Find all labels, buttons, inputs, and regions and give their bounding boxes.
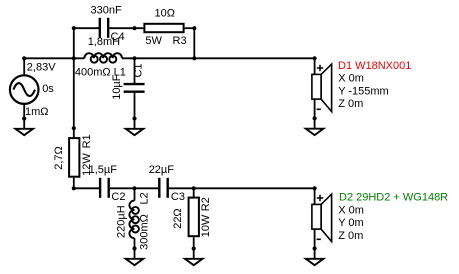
svg-text:L2: L2 xyxy=(138,192,150,204)
ground under R2 xyxy=(185,246,203,265)
ground under D2 xyxy=(306,246,324,265)
node dot at L2 tap xyxy=(132,186,136,190)
minus sign D2 xyxy=(317,238,321,240)
ground under D1 xyxy=(306,116,324,135)
svg-text:R1: R1 xyxy=(81,134,93,148)
wire D1 bottom xyxy=(314,99,316,118)
node dot below R1 xyxy=(72,186,76,190)
wire D1 top xyxy=(314,58,316,74)
svg-text:300mΩ: 300mΩ xyxy=(138,214,150,250)
wire C1 bottom xyxy=(134,93,136,119)
wire C4 to R3 xyxy=(110,27,144,29)
speaker D1 xyxy=(312,64,332,112)
svg-text:10Ω: 10Ω xyxy=(155,8,175,20)
svg-text:10µF: 10µF xyxy=(111,74,123,100)
wire C3 to speaker D2 xyxy=(169,187,315,189)
node dot top-left corner xyxy=(72,26,76,30)
svg-text:1,5µF: 1,5µF xyxy=(89,164,118,176)
ground under C1 xyxy=(126,116,144,135)
svg-text:5W: 5W xyxy=(145,35,162,47)
ground under L2 xyxy=(126,246,144,265)
capacitor C2 xyxy=(100,178,109,198)
speaker D2 xyxy=(312,194,332,242)
wire C2 to C3 xyxy=(110,187,158,189)
plus sign D2 xyxy=(317,195,323,201)
resistor R3 xyxy=(144,24,183,32)
svg-text:C3: C3 xyxy=(171,191,185,203)
svg-text:R2: R2 xyxy=(200,197,212,211)
svg-text:2,7Ω: 2,7Ω xyxy=(53,146,65,170)
wire R3 drop to node A rail xyxy=(193,28,195,58)
svg-text:330nF: 330nF xyxy=(91,5,122,17)
svg-text:1mΩ: 1mΩ xyxy=(25,106,49,118)
node dot between C4 and R3 xyxy=(132,26,136,30)
svg-text:220µH: 220µH xyxy=(115,205,127,238)
resistor R2 xyxy=(189,198,199,237)
wire top rail to C4 xyxy=(74,27,99,29)
capacitor C4 xyxy=(100,18,108,38)
voltage source V1 xyxy=(10,75,39,104)
svg-text:X 0m: X 0m xyxy=(338,73,364,85)
wire lower rail left xyxy=(74,187,99,189)
wire node A down to R1 xyxy=(73,58,75,137)
node dot after L1 xyxy=(132,56,136,60)
wire top rail left vertical xyxy=(73,28,75,58)
svg-text:X 0m: X 0m xyxy=(338,204,364,216)
wire R2 bottom xyxy=(193,237,195,248)
wire L2 top xyxy=(134,188,136,200)
capacitor C1 xyxy=(124,84,145,92)
svg-text:C1: C1 xyxy=(132,63,144,77)
node dot above R1 xyxy=(72,126,76,130)
node dot at D2 xyxy=(313,186,317,190)
svg-text:0s: 0s xyxy=(42,83,54,95)
minus sign D1 xyxy=(317,108,321,110)
plus sign D1 xyxy=(317,65,323,71)
capacitor C3 xyxy=(159,178,167,198)
svg-text:2,83V: 2,83V xyxy=(27,61,56,73)
wire source bottom xyxy=(23,104,25,119)
wire C1 branch top xyxy=(134,58,136,83)
svg-text:C2: C2 xyxy=(111,191,125,203)
ground under source xyxy=(15,116,33,135)
svg-text:Y 0m: Y 0m xyxy=(338,217,363,229)
wire node A rail left xyxy=(24,57,84,59)
resistor R1 xyxy=(69,138,79,177)
svg-text:D1 W18NX001: D1 W18NX001 xyxy=(338,60,411,72)
wire D2 top xyxy=(314,188,316,204)
wire node A rail right of L1 to speaker D1 xyxy=(122,57,315,59)
svg-text:R3: R3 xyxy=(173,35,187,47)
svg-text:D2 29HD2 + WG148R: D2 29HD2 + WG148R xyxy=(339,192,448,204)
inductor L1 xyxy=(84,53,122,63)
svg-text:Z 0m: Z 0m xyxy=(338,98,363,110)
wire R2 top xyxy=(193,188,195,197)
wire R1 bottom xyxy=(73,178,75,189)
wire D2 bottom xyxy=(314,229,316,248)
svg-text:Y -155mm: Y -155mm xyxy=(338,85,389,97)
svg-text:22Ω: 22Ω xyxy=(172,208,184,228)
svg-text:C4: C4 xyxy=(111,31,125,43)
node dot R3 right corner xyxy=(192,26,196,30)
svg-text:Z 0m: Z 0m xyxy=(338,230,363,242)
inductor L2 xyxy=(129,201,139,239)
node dot at x=73.8 on node A rail xyxy=(72,56,76,60)
svg-text:22µF: 22µF xyxy=(149,164,175,176)
svg-text:10W: 10W xyxy=(200,214,212,237)
node dot at D1 xyxy=(313,56,317,60)
wire R3 right xyxy=(185,27,195,29)
wire L2 bottom xyxy=(134,238,136,248)
node dot at R2 tap xyxy=(192,186,196,190)
node A dot at source corner xyxy=(22,56,26,60)
node dot below R3 drop xyxy=(192,56,196,60)
wire source top xyxy=(23,58,25,75)
